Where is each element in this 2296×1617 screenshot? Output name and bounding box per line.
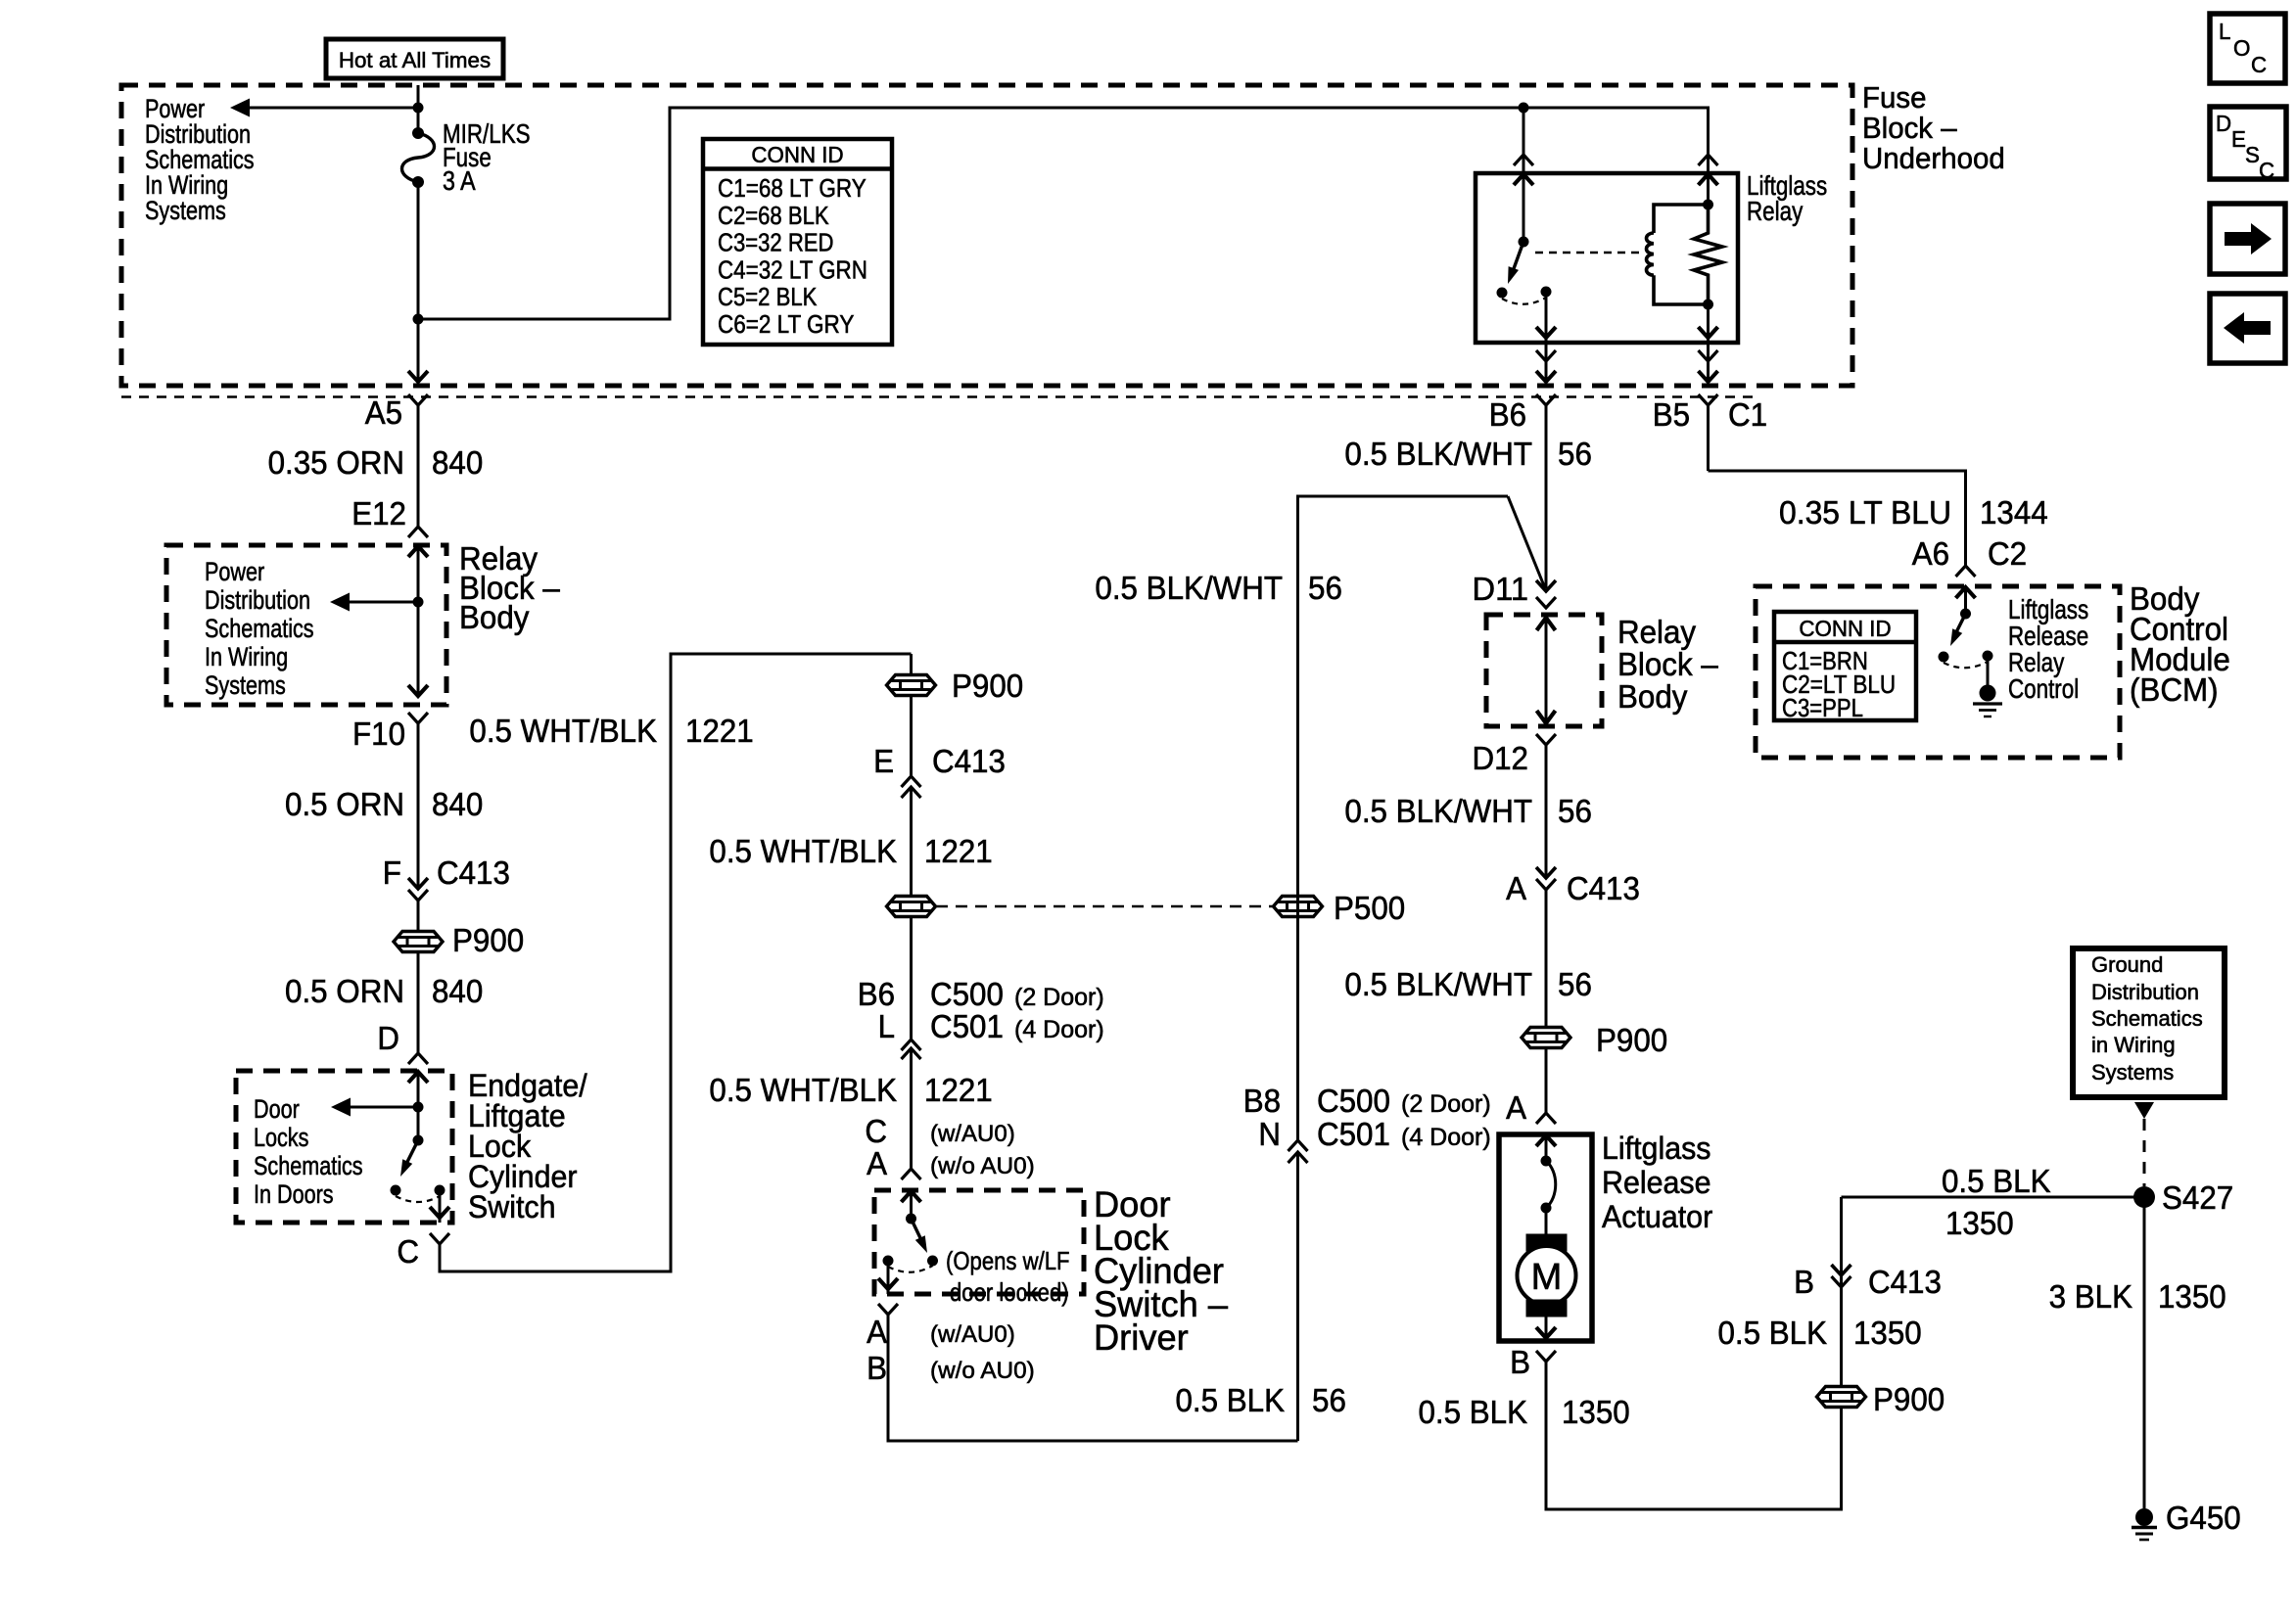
- junction dot power dist arrow: [413, 597, 424, 608]
- svg-text:1350: 1350: [1562, 1394, 1630, 1430]
- svg-text:0.5 ORN: 0.5 ORN: [285, 973, 404, 1009]
- svg-text:Distribution: Distribution: [205, 585, 310, 615]
- relay pin exit wire x=1744.5: [1707, 343, 1710, 382]
- svg-text:Schematics: Schematics: [254, 1151, 363, 1180]
- svg-text:Door: Door: [254, 1094, 300, 1124]
- junction dot door locks arrow: [413, 1102, 424, 1113]
- relay switch travel dashed arc: [1502, 298, 1546, 304]
- svg-text:Underhood: Underhood: [1862, 141, 2005, 175]
- svg-text:Schematics: Schematics: [205, 614, 314, 643]
- svg-text:Locks: Locks: [254, 1123, 308, 1152]
- actuator entry arrow: [1536, 1135, 1556, 1146]
- svg-text:B: B: [867, 1350, 887, 1386]
- svg-text:C500: C500: [930, 976, 1004, 1012]
- door lock switch output wire: [887, 1261, 890, 1294]
- svg-text:0.5 BLK/WHT: 0.5 BLK/WHT: [1095, 570, 1283, 606]
- svg-text:0.5 WHT/BLK: 0.5 WHT/BLK: [469, 713, 657, 749]
- svg-text:G450: G450: [2166, 1500, 2241, 1536]
- svg-text:C413: C413: [437, 855, 510, 891]
- door lock switch contact dots: [883, 1256, 894, 1267]
- svg-text:1221: 1221: [924, 833, 993, 869]
- svg-text:56: 56: [1558, 793, 1592, 829]
- BCM switch arm: [1954, 614, 1966, 636]
- svg-text:A: A: [867, 1314, 887, 1350]
- svg-text:1221: 1221: [924, 1072, 993, 1108]
- svg-text:56: 56: [1312, 1382, 1346, 1418]
- fuse block connector boundary thin dashed line: [121, 395, 1753, 398]
- Hot at All Times label box: [326, 39, 503, 78]
- relay switch contact dots: [1497, 288, 1508, 299]
- svg-text:C500: C500: [1317, 1083, 1390, 1119]
- splice S427 dot: [2133, 1186, 2155, 1208]
- ground G450 symbol: [2135, 1508, 2153, 1526]
- endgate entry arrow: [408, 1072, 428, 1083]
- svg-text:Systems: Systems: [2091, 1060, 2174, 1085]
- nav box LOC: [2210, 14, 2285, 83]
- svg-text:C: C: [2259, 158, 2274, 183]
- svg-text:Control: Control: [2008, 673, 2079, 704]
- connector F C413: [408, 878, 428, 889]
- F10 connector restart: [408, 713, 428, 723]
- endgate switch pivot dot: [413, 1135, 424, 1146]
- svg-text:Block –: Block –: [1862, 111, 1957, 145]
- wire door lock output to B8 riser: [888, 1315, 1298, 1441]
- wire P900 to D: [417, 952, 420, 1053]
- svg-text:1350: 1350: [1853, 1315, 1922, 1351]
- ground distribution pointer triangle: [2134, 1102, 2154, 1119]
- svg-text:C5=2 BLK: C5=2 BLK: [718, 282, 818, 311]
- svg-text:0.5 WHT/BLK: 0.5 WHT/BLK: [709, 833, 897, 869]
- svg-text:C1=68 LT GRY: C1=68 LT GRY: [718, 173, 867, 203]
- svg-text:(4 Door): (4 Door): [1401, 1124, 1491, 1151]
- C connector restart: [430, 1233, 449, 1244]
- svg-text:(4 Door): (4 Door): [1014, 1016, 1104, 1043]
- door lock entry arrow: [902, 1191, 921, 1202]
- svg-text:A: A: [1506, 870, 1526, 906]
- svg-text:A: A: [867, 1145, 887, 1181]
- svg-text:Hot at All Times: Hot at All Times: [339, 48, 491, 72]
- connector B6/L C500/C501: [902, 1039, 921, 1050]
- svg-text:C2: C2: [1988, 535, 2027, 572]
- svg-text:B: B: [1794, 1264, 1814, 1300]
- svg-text:E12: E12: [351, 495, 406, 531]
- E12 entry fan: [408, 527, 428, 537]
- BCM entry arrow: [1956, 587, 1976, 598]
- wire top feed to relay right pin: [1523, 108, 1709, 173]
- svg-text:N: N: [1258, 1116, 1281, 1152]
- A5 exit arrowhead: [408, 371, 428, 382]
- junction dot at relay feed: [1519, 103, 1529, 114]
- splice P500: [1274, 897, 1323, 917]
- svg-text:In Doors: In Doors: [254, 1179, 334, 1209]
- svg-text:A5: A5: [365, 394, 402, 431]
- svg-text:B6: B6: [858, 976, 895, 1012]
- svg-text:Systems: Systems: [205, 670, 286, 700]
- connector E C413: [902, 776, 921, 787]
- actuator wire motor to B: [1545, 1317, 1548, 1341]
- arrow to door locks schematics: [350, 1106, 418, 1109]
- actuator entry fan: [1536, 1113, 1556, 1124]
- D11 entry arrowhead: [1536, 580, 1556, 591]
- svg-text:P500: P500: [1334, 890, 1405, 926]
- svg-text:0.35 LT BLU: 0.35 LT BLU: [1779, 494, 1951, 531]
- svg-text:Body: Body: [1617, 678, 1688, 715]
- svg-text:P900: P900: [452, 922, 524, 958]
- actuator wire to motor: [1545, 1208, 1548, 1234]
- relay block body entry arrow: [408, 546, 428, 557]
- svg-text:Schematics: Schematics: [2091, 1006, 2203, 1031]
- svg-text:D11: D11: [1473, 571, 1529, 607]
- svg-text:0.35 ORN: 0.35 ORN: [268, 444, 404, 481]
- svg-text:CONN ID: CONN ID: [751, 142, 843, 167]
- svg-text:E: E: [873, 743, 894, 779]
- svg-text:A6: A6: [1912, 535, 1949, 572]
- door lock switch arm: [912, 1219, 923, 1242]
- BCM switch to ground wire: [1987, 656, 1990, 686]
- svg-text:S: S: [2245, 142, 2260, 167]
- svg-text:0.5 BLK: 0.5 BLK: [1419, 1394, 1528, 1430]
- wire C1 to BCM C2: [1709, 471, 1966, 566]
- endgate switch output wire: [439, 1190, 442, 1223]
- svg-text:840: 840: [432, 444, 483, 481]
- motor M symbol: [1526, 1234, 1567, 1251]
- wire middle column top: [910, 654, 913, 776]
- svg-text:L: L: [2219, 19, 2231, 44]
- svg-text:Distribution: Distribution: [2091, 980, 2199, 1004]
- splice P900 left column: [394, 932, 443, 952]
- svg-text:C413: C413: [1567, 870, 1640, 906]
- relay block body exit arrowhead: [408, 685, 428, 696]
- relay resistor: [1694, 205, 1722, 304]
- svg-text:1344: 1344: [1980, 494, 2048, 531]
- nav box DESC: [2210, 107, 2286, 179]
- svg-text:B: B: [1510, 1344, 1530, 1380]
- svg-text:C6=2 LT GRY: C6=2 LT GRY: [718, 309, 854, 339]
- svg-text:(2 Door): (2 Door): [1014, 984, 1104, 1011]
- svg-text:0.5 ORN: 0.5 ORN: [285, 786, 404, 822]
- nav box next arrow: [2210, 204, 2285, 274]
- relay coil node dot top: [1703, 200, 1713, 210]
- B connector restart (actuator): [1536, 1351, 1556, 1362]
- door lock cylinder switch dashed box: [874, 1190, 1084, 1294]
- svg-text:B6: B6: [1489, 396, 1526, 433]
- svg-text:3 BLK: 3 BLK: [2049, 1278, 2132, 1315]
- svg-text:B5: B5: [1653, 396, 1690, 433]
- C2 entry fan: [1956, 566, 1976, 577]
- svg-text:3 A: 3 A: [443, 165, 476, 196]
- connector B8/N C500/C501: [1289, 1140, 1308, 1151]
- endgate switch travel dashed arc: [396, 1196, 440, 1202]
- svg-text:P900: P900: [1596, 1022, 1667, 1058]
- svg-text:P900: P900: [952, 668, 1023, 704]
- wire fuse down to A5: [417, 182, 420, 381]
- wire branch to liftglass relay feed: [418, 108, 1523, 319]
- dashed splice tie line to P500: [936, 905, 1273, 908]
- relay block body pass-through wire: [1545, 617, 1548, 724]
- svg-text:0.5 BLK/WHT: 0.5 BLK/WHT: [1344, 436, 1532, 472]
- svg-text:C1: C1: [1728, 396, 1767, 433]
- CONN ID table BCM: [1774, 612, 1916, 720]
- svg-text:0.5 BLK/WHT: 0.5 BLK/WHT: [1344, 966, 1532, 1002]
- svg-text:S427: S427: [2162, 1179, 2233, 1216]
- connector B C413: [1832, 1265, 1851, 1275]
- svg-text:L: L: [878, 1008, 895, 1044]
- svg-text:M: M: [1531, 1257, 1563, 1298]
- svg-text:0.5 WHT/BLK: 0.5 WHT/BLK: [709, 1072, 897, 1108]
- svg-text:(w/AU0): (w/AU0): [930, 1121, 1015, 1147]
- D12 connector restart: [1536, 734, 1556, 745]
- svg-text:Relay: Relay: [1617, 614, 1697, 650]
- svg-text:Release: Release: [1602, 1165, 1711, 1200]
- endgate switch contact dots: [391, 1185, 401, 1196]
- relay switched output wire: [1545, 292, 1548, 343]
- fuse block underhood dashed outline: [121, 85, 1852, 386]
- splice P900 middle: [887, 675, 936, 696]
- svg-text:door locked): door locked): [950, 1277, 1069, 1307]
- relay coil output wire: [1707, 304, 1710, 343]
- svg-text:C: C: [2251, 52, 2267, 77]
- svg-text:Actuator: Actuator: [1602, 1199, 1713, 1234]
- relay coil node dot bottom: [1703, 300, 1713, 310]
- liftglass release actuator box: [1499, 1134, 1592, 1341]
- svg-text:F10: F10: [352, 716, 405, 752]
- svg-text:D: D: [377, 1020, 399, 1056]
- A5 connector restart: [408, 394, 428, 405]
- fuse MIR/LKS 3A symbol: [412, 127, 424, 139]
- wire diagonal branch into D11: [1508, 496, 1545, 588]
- door lock switch travel dashed arc: [888, 1266, 933, 1272]
- BCM switch travel dashed arc: [1944, 662, 1988, 668]
- svg-text:F: F: [383, 855, 401, 891]
- svg-text:Block –: Block –: [1617, 646, 1718, 682]
- BCM internal ground: [1980, 685, 1996, 702]
- relay switch arm: [1512, 242, 1523, 274]
- BCM switch contact dots: [1939, 652, 1949, 663]
- relay block body dashed box: [166, 545, 446, 705]
- relay mechanical dashed link: [1535, 252, 1641, 254]
- svg-text:56: 56: [1308, 570, 1342, 606]
- svg-text:Relay: Relay: [1747, 196, 1803, 226]
- wire horizontal to S427: [1842, 1196, 2145, 1199]
- actuator switch dots and curve: [1541, 1156, 1552, 1167]
- liftglass relay box: [1476, 173, 1738, 343]
- svg-text:Liftglass: Liftglass: [1602, 1131, 1711, 1166]
- A/B connector restart: [878, 1304, 898, 1315]
- splice P900 ground column: [1817, 1387, 1866, 1408]
- svg-text:1350: 1350: [1945, 1205, 2014, 1241]
- svg-text:(w/AU0): (w/AU0): [930, 1321, 1015, 1348]
- svg-text:C3=PPL: C3=PPL: [1782, 693, 1863, 722]
- ground distribution schematics box: [2073, 948, 2225, 1097]
- splice P900 right column: [1522, 1028, 1570, 1048]
- svg-text:CONN ID: CONN ID: [1799, 616, 1891, 641]
- relay coil: [1654, 205, 1709, 233]
- svg-text:Fuse: Fuse: [1862, 80, 1927, 115]
- svg-text:C2=68 BLK: C2=68 BLK: [718, 201, 829, 230]
- pin B5/C1 restart below fuse block: [1699, 394, 1718, 405]
- wire actuator B to ground run: [1546, 1275, 1842, 1509]
- svg-text:1221: 1221: [685, 713, 754, 749]
- svg-text:56: 56: [1558, 436, 1592, 472]
- door lock switch entry fan: [902, 1169, 921, 1179]
- svg-text:Power: Power: [205, 557, 264, 586]
- pin B6 restart below fuse block: [1536, 394, 1556, 405]
- svg-text:56: 56: [1558, 966, 1592, 1002]
- door lock switch pivot dot: [906, 1214, 916, 1224]
- svg-text:D: D: [2216, 111, 2231, 136]
- wire S427 to G450: [2143, 1197, 2146, 1508]
- wire hot feed down from box top: [417, 85, 420, 133]
- junction dot feed/arrow: [413, 103, 424, 114]
- relay left pin entry: [1523, 108, 1525, 173]
- relay block body small dashed box: [1486, 615, 1602, 726]
- connector A C413: [1536, 867, 1556, 878]
- svg-text:C: C: [397, 1233, 419, 1270]
- svg-text:in Wiring: in Wiring: [2091, 1033, 2176, 1057]
- svg-text:0.5 BLK: 0.5 BLK: [1718, 1315, 1828, 1351]
- wire ground column to S427: [1840, 1197, 1843, 1275]
- svg-text:Ground: Ground: [2091, 952, 2163, 977]
- wire B8 riser to D11 branch: [1298, 496, 1509, 1140]
- wire B8 riser: [1296, 1152, 1299, 1441]
- endgate switch arm: [404, 1140, 418, 1168]
- BCM switch pivot dot: [1960, 609, 1971, 620]
- svg-text:D12: D12: [1473, 740, 1529, 776]
- junction dot branch to relay: [413, 314, 424, 325]
- svg-text:C501: C501: [1317, 1116, 1390, 1152]
- svg-text:(w/o AU0): (w/o AU0): [930, 1358, 1035, 1384]
- body control module dashed box: [1756, 586, 2120, 758]
- svg-text:0.5 BLK/WHT: 0.5 BLK/WHT: [1344, 793, 1532, 829]
- svg-text:(2 Door): (2 Door): [1401, 1090, 1491, 1118]
- D entry fan: [408, 1053, 428, 1064]
- svg-text:(w/o AU0): (w/o AU0): [930, 1153, 1035, 1179]
- svg-text:Driver: Driver: [1094, 1317, 1189, 1358]
- arrow to power distribution schematics: [249, 107, 418, 110]
- svg-text:In Wiring: In Wiring: [205, 642, 288, 671]
- relay switch pivot dot: [1519, 237, 1529, 248]
- arrow to power distribution (relay block): [349, 601, 418, 604]
- D11 connector fan: [1536, 597, 1556, 608]
- svg-text:840: 840: [432, 973, 483, 1009]
- svg-text:0.5 BLK: 0.5 BLK: [1176, 1382, 1286, 1418]
- svg-text:C4=32 LT GRN: C4=32 LT GRN: [718, 254, 867, 284]
- svg-text:C413: C413: [1868, 1264, 1942, 1300]
- CONN ID table underhood: [703, 139, 892, 345]
- svg-text:1350: 1350: [2158, 1278, 2226, 1315]
- svg-text:C: C: [865, 1113, 887, 1149]
- svg-text:O: O: [2233, 35, 2250, 61]
- wire C to middle column riser: [440, 654, 912, 1271]
- svg-text:P900: P900: [1873, 1381, 1945, 1417]
- svg-text:C413: C413: [932, 743, 1006, 779]
- svg-text:A: A: [1506, 1089, 1526, 1126]
- relay right pin entry: [1699, 155, 1718, 165]
- nav box prev arrow: [2210, 294, 2285, 363]
- svg-text:B8: B8: [1243, 1083, 1281, 1119]
- relay pin exit wire x=1579: [1545, 343, 1548, 382]
- svg-text:(BCM): (BCM): [2130, 671, 2219, 708]
- splice middle at P500: [887, 897, 936, 917]
- dashed link to S427: [2143, 1119, 2146, 1186]
- svg-text:Body: Body: [459, 599, 530, 635]
- svg-text:0.5 BLK: 0.5 BLK: [1942, 1163, 2051, 1199]
- endgate lock cylinder switch dashed box: [236, 1071, 452, 1223]
- svg-text:Switch: Switch: [468, 1189, 556, 1224]
- svg-text:C501: C501: [930, 1008, 1004, 1044]
- svg-text:E: E: [2231, 126, 2246, 152]
- svg-text:C3=32 RED: C3=32 RED: [718, 228, 834, 257]
- svg-text:Systems: Systems: [145, 196, 226, 225]
- svg-text:(Opens w/LF: (Opens w/LF: [946, 1246, 1070, 1275]
- svg-text:840: 840: [432, 786, 483, 822]
